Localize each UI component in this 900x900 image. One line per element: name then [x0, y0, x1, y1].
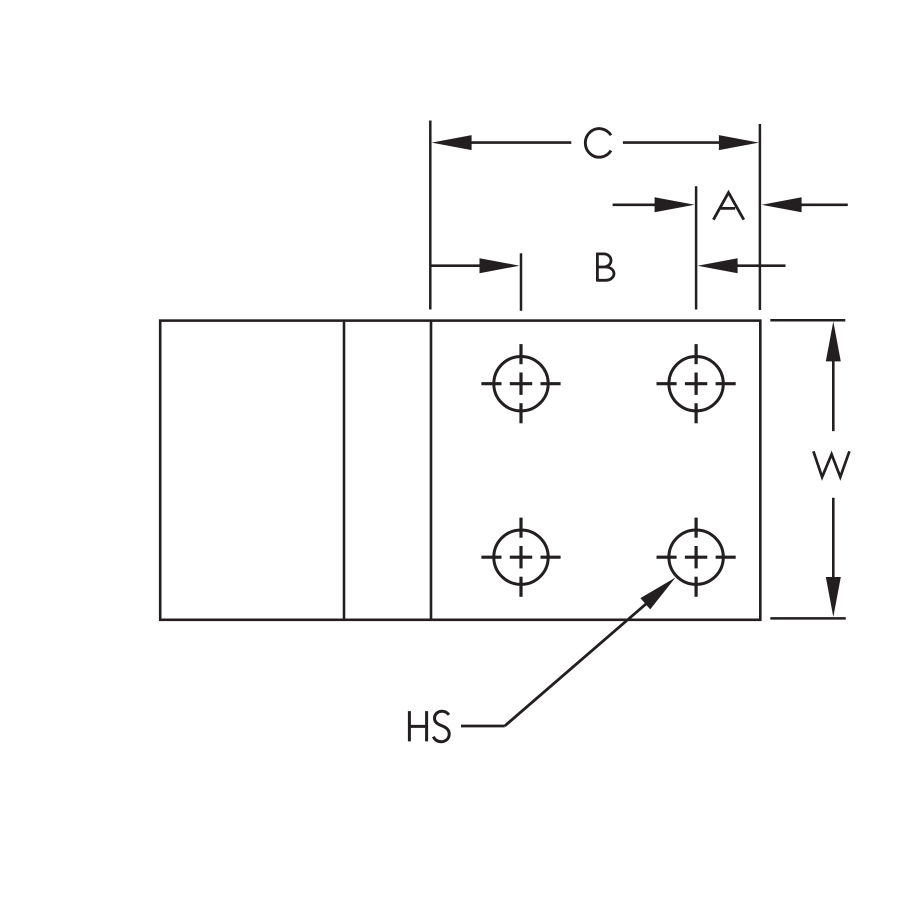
leader HS arrowhead [640, 578, 675, 610]
label A [713, 193, 743, 220]
dimension W line bottom segment [832, 498, 835, 579]
leader HS horizontal segment [461, 725, 505, 728]
dimension C line left segment [470, 141, 571, 144]
dimension B tail right [736, 264, 786, 267]
dimension C arrow left [432, 135, 472, 150]
dimension C line right segment [623, 141, 721, 144]
hole HS bottom-left circle [494, 530, 548, 584]
label HS [409, 711, 449, 742]
dimension W arrow bottom [826, 577, 841, 617]
dimension C extension line right [759, 124, 762, 310]
hole HS top-right circle [669, 357, 723, 411]
dimension A tail right [800, 204, 848, 207]
dimension W line top segment [832, 360, 835, 431]
hole HS bottom-right center mark [657, 518, 736, 597]
dimension A tail left [613, 204, 657, 207]
dimension W extension line bottom [770, 617, 846, 620]
dimension B extension tick [520, 253, 523, 310]
leader HS diagonal segment [505, 600, 651, 726]
dimension C arrow right [719, 135, 759, 150]
dimension A arrow left [655, 197, 695, 212]
dimension B tail left [432, 264, 482, 267]
dimension W extension line top [770, 319, 845, 322]
label W [813, 451, 849, 477]
dimension A arrow right [762, 197, 802, 212]
dimension C extension line left [429, 121, 432, 310]
label C [585, 129, 611, 158]
hole HS bottom-right circle [669, 530, 723, 584]
plate inner edge line 1 [343, 321, 346, 620]
plate inner edge line 2 [430, 321, 433, 620]
dimension B arrow right [698, 258, 738, 273]
dimension A extension line [695, 186, 698, 309]
label B [597, 253, 614, 282]
hole HS top-right center mark [657, 344, 736, 423]
dimension B arrow left [480, 258, 520, 273]
dimension W arrow top [826, 321, 841, 361]
hole HS top-left circle [494, 357, 548, 411]
hole HS top-left center mark [481, 344, 560, 423]
plate outline [160, 321, 760, 620]
hole HS bottom-left center mark [481, 518, 560, 597]
